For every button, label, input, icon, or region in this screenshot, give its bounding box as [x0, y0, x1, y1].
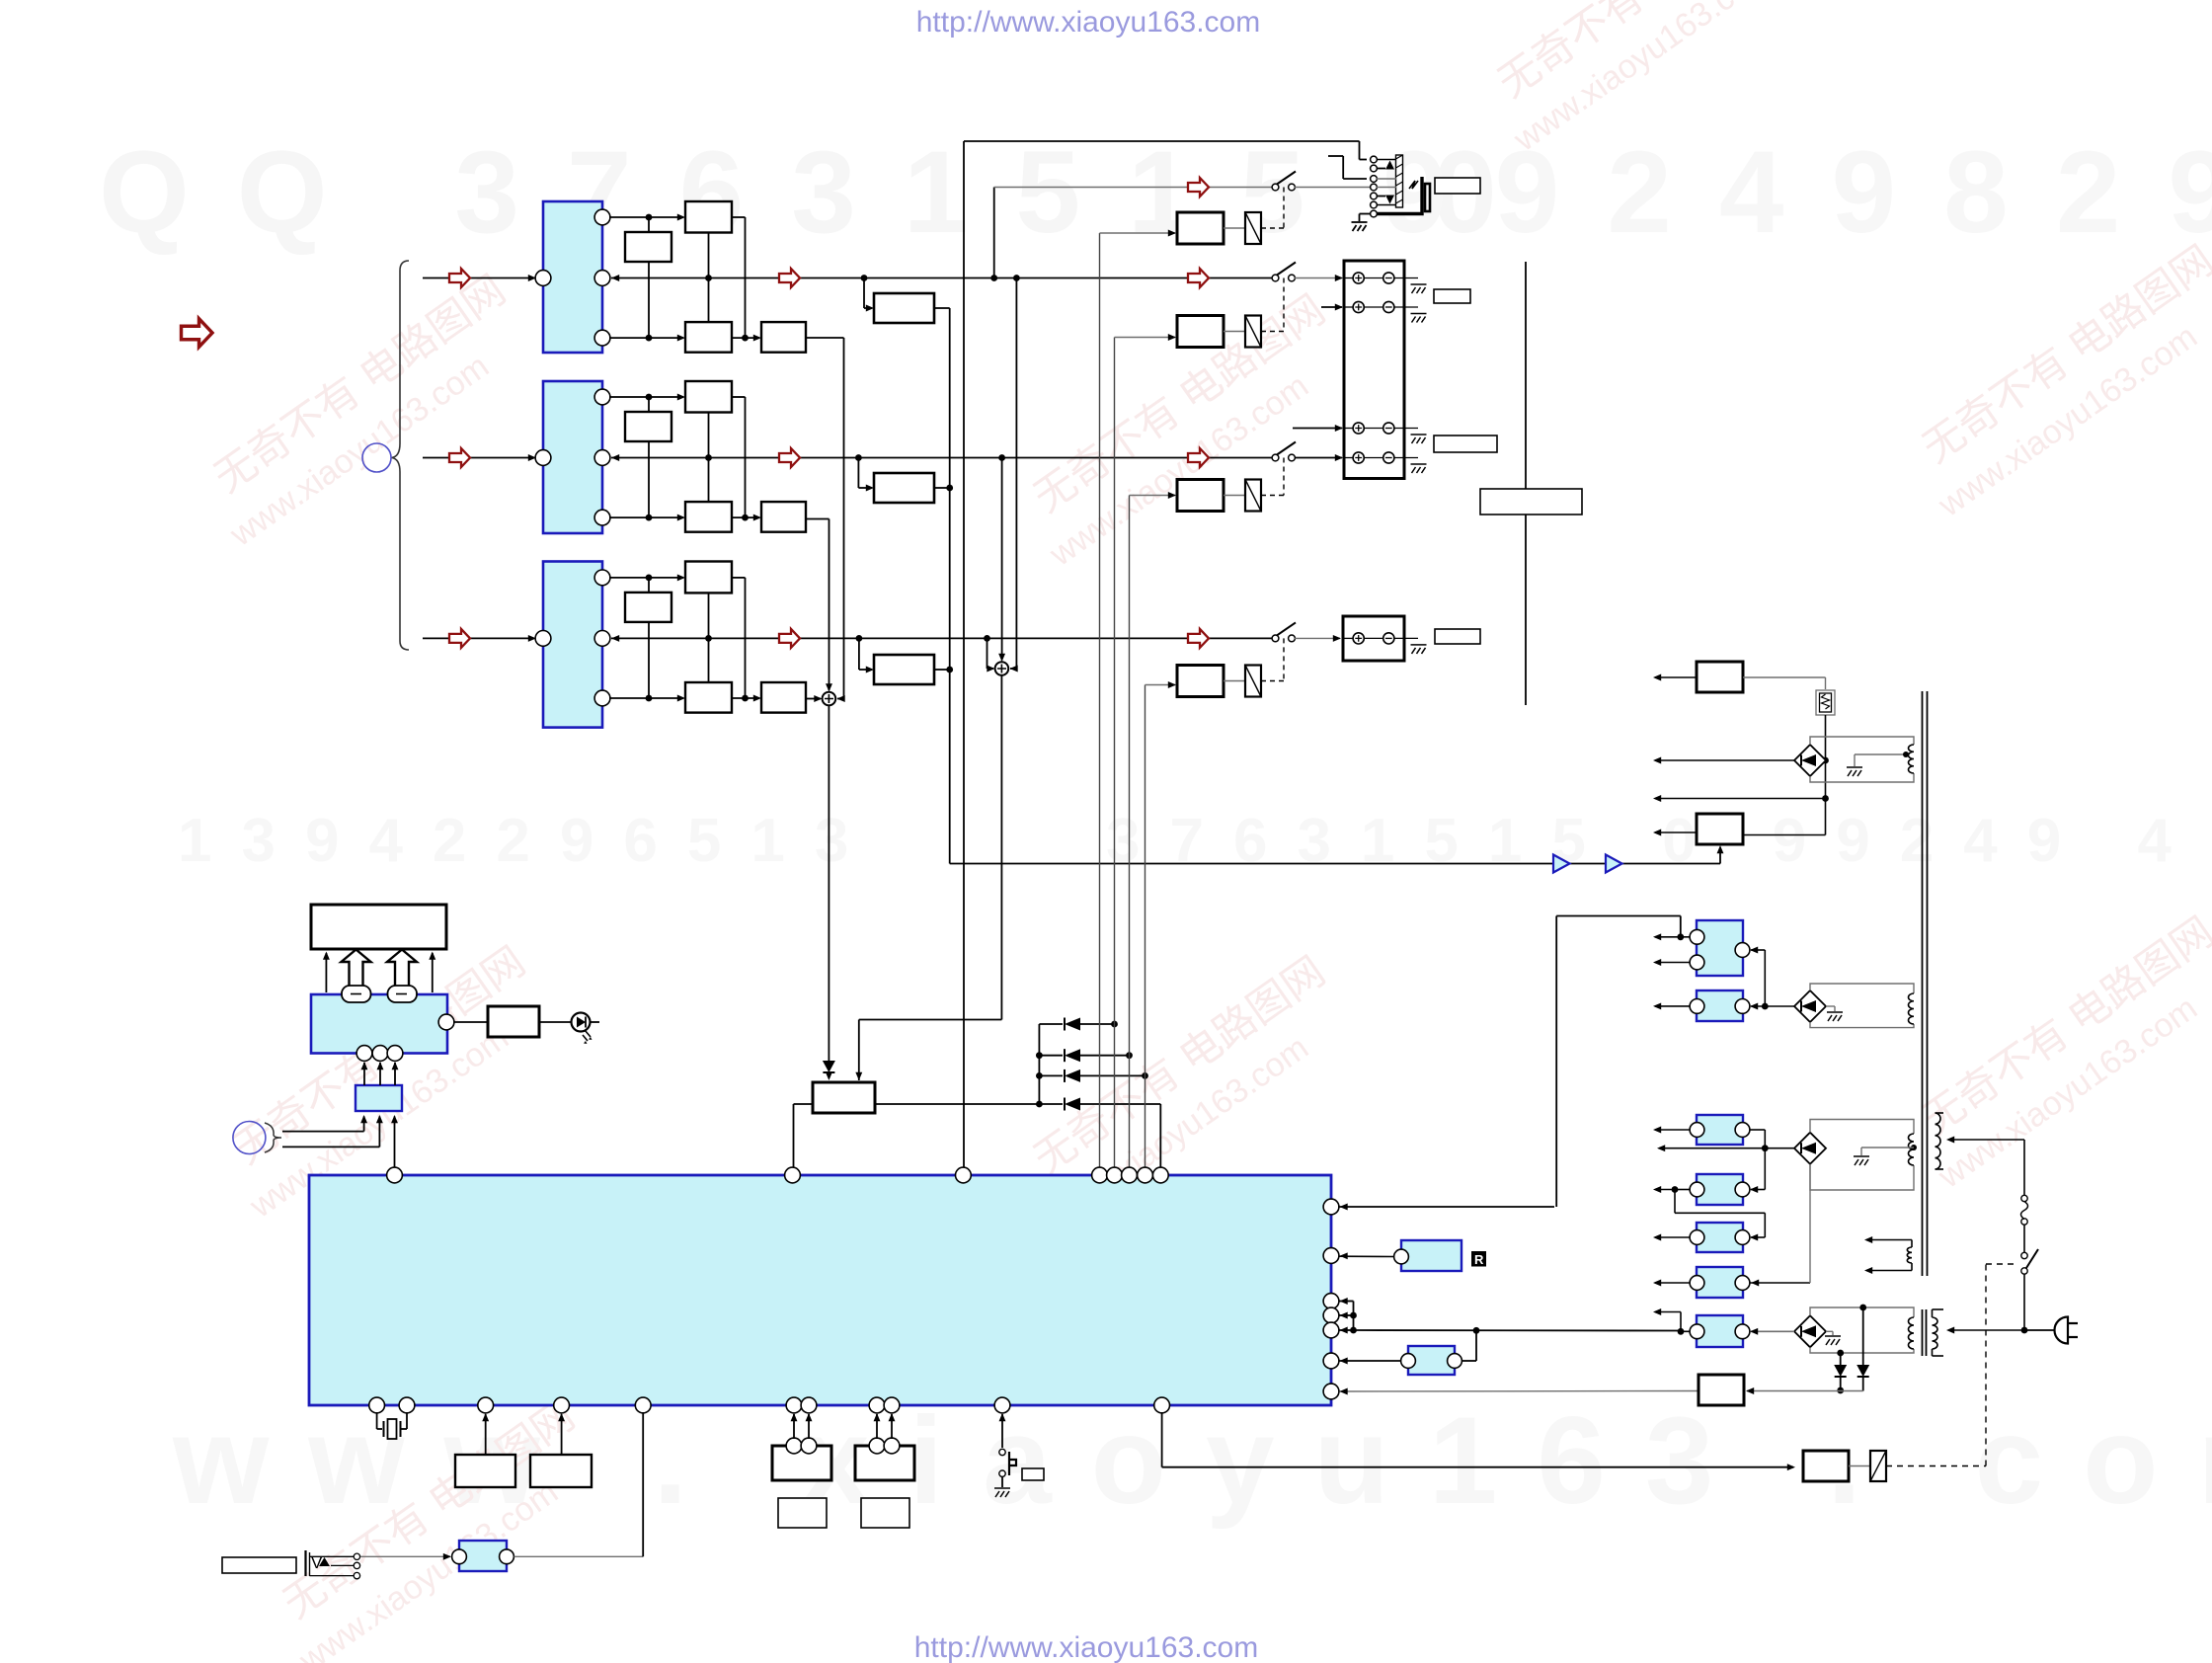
channel 1 DAC pins — [535, 271, 551, 286]
svg-text:http://www.xiaoyu163.com: http://www.xiaoyu163.com — [914, 1631, 1259, 1663]
speaker wire 4 — [1295, 457, 1342, 459]
FL driver right pin — [438, 1014, 454, 1030]
LED driver box — [488, 1006, 539, 1037]
display thin arrow left — [325, 953, 327, 992]
speaker label box 1 — [1434, 289, 1470, 303]
display pill 1 — [342, 986, 371, 1002]
channel 2 E box feed — [857, 458, 859, 489]
channel 3 bottom wire — [609, 697, 683, 699]
meter bus vertical — [949, 308, 951, 864]
encoder wire 1 — [282, 1131, 364, 1133]
mute diode D2 — [1039, 1055, 1063, 1057]
channel 1 mid arrow 2 — [1188, 269, 1209, 287]
relay drive line 1 — [1099, 233, 1101, 1167]
IR receiver box — [1401, 1240, 1461, 1271]
channel 1 box B output elbow — [732, 216, 746, 218]
mains vertical wire — [2023, 1140, 2025, 1195]
5V wire from regulator 7 — [1354, 1329, 1682, 1332]
channel 2 box B-C link — [708, 413, 710, 503]
mains plug — [2027, 1329, 2056, 1331]
B4 ground — [1826, 1330, 1833, 1332]
display big arrow 1 — [342, 950, 371, 988]
channel 1 output switch — [1272, 275, 1279, 281]
channel 1 E box feed — [863, 278, 865, 309]
speaker terminal row y281 — [1353, 273, 1364, 283]
channel 3 input wire — [423, 637, 534, 639]
FL driver box — [311, 994, 447, 1054]
summing node 2 — [995, 662, 1009, 675]
relay drive line 3 — [1129, 496, 1131, 1168]
channel 3 output switch — [1272, 635, 1279, 642]
channel 1 box B-C link — [708, 233, 710, 323]
reg4 output arrow — [1677, 1189, 1690, 1191]
T1 standby secondary — [1907, 1247, 1912, 1263]
channel 1 DAC block — [543, 201, 602, 353]
secondary loop 2 — [1810, 984, 1914, 1028]
channel 2 filter box A — [625, 412, 671, 441]
relay 1 dashed link — [1261, 227, 1284, 229]
encoder wire 2 — [282, 1146, 379, 1148]
relay 3 dashed link — [1261, 495, 1284, 497]
tape head B box — [855, 1446, 914, 1480]
channel 3 box C — [685, 682, 732, 713]
channel 3 box B output elbow — [732, 577, 746, 579]
B4 output to reg7 — [1751, 1330, 1794, 1332]
channel 2 mid wire — [611, 454, 619, 461]
channel 2 DAC pins — [535, 450, 551, 466]
bridge rectifier B4 — [1794, 1315, 1826, 1347]
crystal X1 — [376, 1412, 378, 1429]
loop2 ground — [1826, 1005, 1835, 1007]
FL display box — [311, 905, 446, 949]
power LED — [539, 1021, 572, 1023]
relay 4 contact box — [1245, 666, 1261, 697]
meter bus to power amp wire — [950, 863, 1720, 865]
channel 2 DAC block — [543, 381, 602, 533]
buffer amp triangle 2 — [1606, 855, 1622, 873]
relay dashed control 2 — [1283, 278, 1285, 332]
regulator 5 — [1697, 1223, 1743, 1252]
headphone source icon — [362, 443, 391, 472]
channel 3 filter box A — [625, 593, 671, 622]
relay 3 link — [1224, 495, 1245, 497]
system control box — [813, 1082, 875, 1113]
svg-text:13942296513: 13942296513 — [178, 807, 878, 875]
P1 output arrow — [1655, 676, 1697, 678]
speaker terminal row y433 — [1353, 423, 1364, 434]
headphone jack label box — [1435, 178, 1480, 194]
main rail vertical — [1825, 715, 1827, 835]
headphone jack internal wire A — [1328, 155, 1343, 157]
reg6 output arrow — [1655, 1282, 1690, 1284]
B2 output to regulators — [1751, 1005, 1794, 1007]
tape wire to jack — [1295, 187, 1370, 189]
mute diode D4 — [1064, 1098, 1066, 1111]
relay 2 input wire — [1115, 337, 1176, 339]
channel 2 box D — [761, 502, 806, 532]
speaker wire 1 — [1295, 277, 1342, 279]
headphone jack contacts — [1371, 156, 1378, 163]
channel 3 mid wire — [611, 635, 619, 642]
rotary encoder — [233, 1122, 266, 1154]
display big arrow 2 — [387, 950, 417, 988]
channel 2 mid arrow 2 — [1188, 448, 1209, 467]
loop1 ground tap — [1854, 754, 1856, 766]
P2 output arrow — [1655, 831, 1697, 833]
regulator 6 — [1697, 1267, 1743, 1298]
relay drive line 4 — [1145, 685, 1146, 1168]
ch3 feed to summer2 left — [987, 638, 988, 669]
channel 2 input wire — [423, 457, 534, 459]
channel 1 D output to summer right — [806, 337, 844, 339]
channel 1 box B — [685, 201, 732, 233]
snubber diode Db — [1859, 1305, 1866, 1311]
power key label box — [1022, 1468, 1044, 1480]
subwoofer terminal block — [1343, 616, 1404, 661]
rail output arrow 1 — [1655, 759, 1822, 761]
display thin arrow right — [432, 953, 434, 992]
tape head A label — [778, 1498, 827, 1528]
relay 2 contact box — [1245, 316, 1261, 348]
snubber diode Da — [1837, 1350, 1844, 1357]
channel 2 box B — [685, 381, 732, 413]
power box P2 — [1697, 814, 1743, 844]
transformer T1 core — [1922, 691, 1924, 1276]
relay 3 input wire — [1130, 495, 1176, 497]
secondary loop 1 — [1810, 737, 1914, 782]
headphone plug sleeve — [1377, 177, 1422, 214]
reg5 output arrow — [1655, 1236, 1690, 1238]
mains fuse — [2021, 1195, 2027, 1201]
P1 input wire — [1743, 676, 1826, 678]
ch1 wire riser to tape wire — [993, 188, 995, 278]
wire into P2 bottom — [1719, 847, 1721, 864]
power relay contact box — [1870, 1451, 1886, 1481]
IR label R — [1471, 1251, 1486, 1267]
speaker terminal block — [1344, 261, 1404, 479]
relay 2 dashed link — [1261, 331, 1284, 333]
channel 1 mid wire — [611, 275, 619, 281]
channel 2 E box — [874, 473, 934, 503]
opto wires — [1340, 1360, 1401, 1362]
summer1 output diode to system box — [828, 705, 829, 1057]
channel 2 top wire — [609, 396, 683, 398]
IC pin 1222 wire — [1338, 1206, 1554, 1208]
channel 3 mid arrow 2 — [1188, 629, 1209, 648]
secondary loop 3 — [1810, 1120, 1914, 1191]
regulator 1 — [1697, 920, 1743, 976]
mute diode bus — [1038, 1024, 1040, 1104]
channel 3 box D — [761, 682, 806, 713]
IC top pins — [387, 1167, 403, 1183]
power relay coil box — [1803, 1451, 1849, 1481]
main system IC — [309, 1175, 1331, 1405]
channel 2 bottom wire — [609, 516, 683, 518]
reg3 output arrow — [1655, 1129, 1690, 1131]
reg1 output arrows — [1655, 936, 1690, 938]
regulator 7 — [1697, 1315, 1743, 1347]
bridge rectifier B2 — [1794, 990, 1826, 1022]
svg-text:992498299: 992498299 — [1382, 127, 2212, 258]
source selector brace — [392, 261, 410, 650]
watermark pink diagonal stamps — [189, 266, 542, 554]
mic jack label box — [222, 1557, 296, 1573]
relay 4 dashed link — [1261, 680, 1284, 682]
reg5 feed path — [1674, 1190, 1676, 1214]
channel 1 bottom wire — [609, 337, 683, 339]
T1 primary input wire — [1948, 1139, 2024, 1141]
mute diode D1 — [1039, 1023, 1063, 1025]
regulator 2 — [1697, 990, 1743, 1021]
relay 4 link — [1224, 680, 1245, 682]
relay 1 contact box — [1245, 212, 1261, 244]
chassis divider line — [1525, 262, 1527, 705]
buffer amp triangle 1 — [1553, 855, 1570, 873]
speaker wire 2 stub — [1321, 306, 1342, 308]
standby supply wire — [1747, 1390, 1863, 1392]
ch1 wire drop to summer2 right — [1015, 278, 1017, 670]
power box P1 — [1697, 662, 1743, 692]
channel 3 box B — [685, 562, 732, 594]
channel 2 box B output elbow — [732, 396, 746, 398]
tape wire switch — [1272, 184, 1279, 191]
B3 output wire — [1659, 1148, 1794, 1149]
regulator 4 — [1697, 1174, 1743, 1205]
speaker terminal row y463 — [1353, 452, 1364, 463]
key scan box — [355, 1085, 402, 1111]
thermistor — [1816, 690, 1835, 715]
tape head A box — [772, 1446, 831, 1480]
relay dashed control 1 — [1283, 188, 1285, 229]
encoder brace — [265, 1123, 281, 1152]
power relay link — [1849, 1465, 1870, 1467]
bridge rectifier B1 — [1794, 745, 1826, 776]
IC bottom pins — [369, 1397, 385, 1413]
summer2 output elbow to system box — [1000, 675, 1002, 1020]
channel 3 D output to summer left — [806, 698, 821, 700]
LED driver wire — [453, 1021, 488, 1023]
relay dashed control 4 — [1283, 638, 1285, 680]
system box left output to IC — [794, 1103, 814, 1105]
mic amp box — [459, 1541, 507, 1571]
channel 3 E box — [874, 655, 934, 684]
channel 1 E box — [874, 293, 934, 323]
loop3 center tap ground — [1911, 1145, 1917, 1150]
channel 1 box C — [685, 322, 732, 353]
relay 4 input wire — [1145, 684, 1176, 686]
channel 3 DAC block — [543, 562, 602, 728]
tape monitor wire — [994, 187, 1272, 189]
rail output arrow 2 — [1655, 798, 1826, 800]
system box right output wire — [875, 1103, 1063, 1105]
headphone jack contact wires — [1377, 159, 1396, 161]
headphone jack tip squiggle — [1409, 181, 1418, 189]
tape monitor arrow — [1188, 178, 1209, 197]
mic jack — [304, 1550, 306, 1576]
channel 2 box C — [685, 502, 732, 532]
channel 2 input arrow — [449, 448, 470, 467]
subwoofer label box — [1435, 629, 1480, 644]
channel 1 filter box A — [625, 232, 671, 262]
channel 1 mid arrow 1 — [779, 269, 800, 287]
reg6 right feed from B3 — [1750, 1282, 1810, 1284]
headphone line riser — [963, 141, 965, 1168]
secondary loop 4 — [1810, 1307, 1914, 1353]
headphone jack up triangle contact — [1377, 168, 1385, 170]
IR wire — [1340, 1255, 1394, 1257]
power feed bus to IC pins — [1353, 1302, 1355, 1331]
reg4 right feed — [1764, 1148, 1766, 1190]
power key switch — [1001, 1414, 1003, 1448]
relay 4 coil box — [1177, 666, 1224, 697]
channel 1 top wire — [609, 216, 683, 218]
mains feed wire — [1948, 1329, 2024, 1331]
relay 1 link — [1224, 227, 1245, 229]
reg3 right to rail — [1750, 1129, 1765, 1131]
relay control wire — [1161, 1412, 1163, 1467]
regulator 3 — [1697, 1115, 1743, 1145]
relay 2 coil box — [1177, 316, 1224, 348]
standby power wire — [1340, 1390, 1699, 1393]
channel 2 output switch — [1272, 454, 1279, 461]
relay 1 input wire — [1100, 232, 1176, 234]
IC right pins — [1323, 1199, 1339, 1215]
summing node 1 — [823, 692, 836, 706]
reg2 output arrow — [1655, 1005, 1690, 1007]
mains power switch — [2023, 1225, 2025, 1252]
transformer T2 core — [1922, 1309, 1924, 1356]
display pill 2 — [388, 986, 418, 1002]
key box to FL arrows — [363, 1063, 365, 1085]
headphone jack down triangle contact — [1377, 196, 1385, 198]
reg7 output arrows — [1683, 1330, 1690, 1332]
relay drive line 2 — [1114, 338, 1116, 1168]
speaker terminal row y311 — [1353, 301, 1364, 312]
ch2 drop to summer2 top — [1001, 458, 1003, 661]
relay 3 coil box — [1177, 480, 1224, 512]
bridge rectifier B3 — [1794, 1133, 1826, 1164]
channel 3 E box output — [934, 669, 950, 671]
T2 primary winding — [1933, 1317, 1938, 1349]
relay dashed control 3 — [1283, 458, 1285, 496]
signal flow arrow standalone — [182, 319, 213, 348]
channel 1 input wire — [423, 277, 534, 279]
headphone jack body bar — [1396, 155, 1403, 207]
relay 3 contact box — [1245, 480, 1261, 512]
channel 2 D output to summer top — [806, 518, 829, 520]
subwoofer terminals — [1353, 633, 1364, 644]
power box P3 — [1698, 1375, 1744, 1405]
svg-text:37631515 0 99249 4 2 9: 37631515 0 99249 4 2 9 — [1106, 807, 2212, 875]
svg-text:http://www.xiaoyu163.com: http://www.xiaoyu163.com — [916, 6, 1261, 39]
channel 2 mid arrow 1 — [779, 448, 800, 467]
channel 1 box D — [761, 322, 806, 353]
box K2 — [530, 1455, 592, 1487]
svg-text:R: R — [1474, 1252, 1484, 1267]
channel junction dots on mid wires — [861, 275, 868, 281]
svg-text:QQ 37631515 0: QQ 37631515 0 — [99, 127, 1544, 258]
center label box — [1480, 489, 1582, 515]
FL driver bottom pins — [356, 1046, 372, 1062]
headphone top wire — [964, 140, 1360, 142]
mic wire — [360, 1555, 450, 1557]
channel 1 input arrow — [449, 269, 470, 287]
key box third input — [394, 1117, 396, 1169]
channel 3 E box feed — [858, 638, 860, 670]
speaker label box 2 — [1434, 436, 1497, 452]
speaker wire 3 stub — [1293, 428, 1342, 430]
channel 3 box B-C link — [708, 593, 710, 682]
headphone jack ground — [1360, 213, 1372, 215]
relay 2 link — [1224, 331, 1245, 333]
mute diode D3 — [1039, 1074, 1063, 1076]
speaker wire 5 — [1295, 637, 1340, 639]
channel 3 mid arrow 1 — [779, 629, 800, 648]
channel 3 top wire — [609, 577, 683, 579]
opto box — [1408, 1346, 1455, 1375]
power relay dashed wire — [1886, 1465, 1986, 1467]
T1 primary winding — [1935, 1113, 1941, 1169]
channel 2 E box output — [934, 487, 950, 489]
channel 1 E box output — [934, 307, 950, 309]
channel 3 DAC pins — [535, 631, 551, 647]
channel 3 input arrow — [449, 629, 470, 648]
box K1 — [455, 1455, 515, 1487]
tape head B label — [861, 1498, 909, 1528]
relay 1 coil box — [1177, 212, 1224, 244]
